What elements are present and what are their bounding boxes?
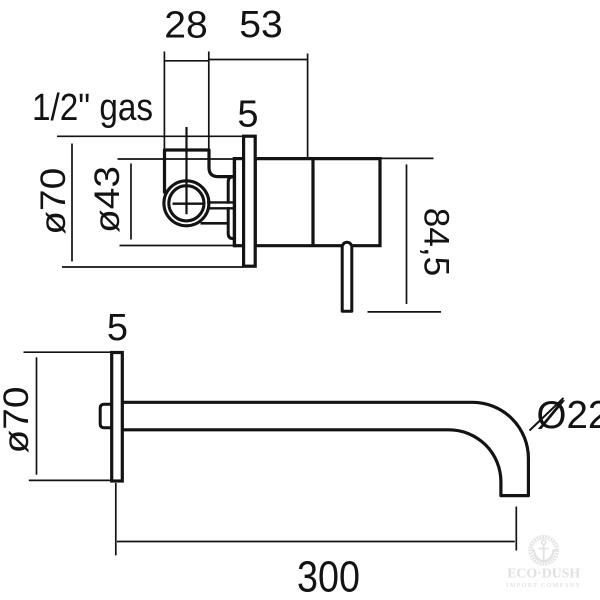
trim body right of wall plate [255,159,380,246]
dimension line 300 [117,541,515,543]
stem white gap [212,204,234,207]
dia22 slash overlay [530,398,564,431]
wall plate (valve escutcheon) [244,136,256,266]
capsule bumper at body end [228,177,234,239]
svg-text:53: 53 [239,4,283,46]
dimension line 28 [165,60,209,62]
body lower tangent line [201,222,230,225]
extension line middle (28/53) [208,52,210,150]
stem upper line [207,201,234,203]
cartridge inner circle [169,186,204,221]
trim divider line [311,159,314,246]
ext line bottom of dia70 spout [29,479,112,481]
body top stub to plate [234,157,243,160]
svg-text:ø43: ø43 [88,166,127,233]
spout inlet nub [100,404,112,427]
dimension line dia70 spout [36,357,38,474]
ext line top of dia70 spout [24,351,112,353]
wall plate (spout escutcheon) [112,353,123,482]
dimension line dia43 [130,164,132,240]
svg-text:300: 300 [297,552,360,600]
crosshair horizontal [173,202,203,204]
ext line top of dim 84,5 [381,157,434,159]
svg-text:IMPORT COMPANY: IMPORT COMPANY [506,582,581,589]
ext line bottom of dim 84,5 [368,311,442,313]
svg-text:ø70: ø70 [0,387,36,454]
body bottom stub to plate [234,244,243,247]
svg-text:ECO·DUSH: ECO·DUSH [507,566,580,581]
svg-text:84,5: 84,5 [417,208,456,277]
ext line bottom of dia70 [62,266,243,268]
svg-text:5: 5 [237,94,258,136]
dimension line 84,5 [406,164,408,304]
extension line left of dim 28 [163,52,165,150]
dimension line dia70 [71,144,73,262]
dimension line 53 [209,59,308,61]
svg-text:ø70: ø70 [34,168,73,235]
ext tick left of dim 300 [115,483,117,555]
valve supply block outline [165,150,235,194]
logo rope ring [530,537,557,564]
stem lower line [207,207,234,209]
cartridge outer circle [164,181,209,226]
supply centerline [185,127,187,214]
body end cap vertical [233,157,236,247]
ext tick right of dim 300 [515,507,517,551]
spout tube [122,402,528,495]
ext line bottom of dia43 [120,245,235,247]
svg-text:1/2" gas: 1/2" gas [32,87,153,129]
extension line right of dim 53 [307,54,309,159]
ext line top of dia70 [57,135,243,137]
handle lever [342,242,352,311]
svg-text:28: 28 [164,5,208,47]
ext line top of dia43 [118,158,235,160]
svg-text:5: 5 [107,307,128,349]
logo anchor [532,540,556,561]
